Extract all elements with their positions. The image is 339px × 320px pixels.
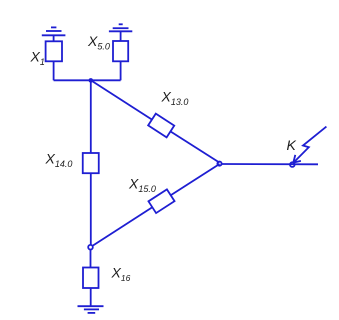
svg-text:X14.0: X14.0: [45, 151, 73, 170]
wire from X5.0 down to top bus: [120, 61, 122, 80]
system source symbol S2 (inverted ground above X5.0): [109, 24, 132, 31]
wire from X14.0 down to node B: [90, 173, 92, 245]
wire from node C to fault node K: [222, 163, 318, 165]
wire from X15.0 to node C: [171, 164, 220, 195]
node K (open circle, fault location): [290, 162, 295, 167]
svg-text:X16: X16: [111, 265, 131, 284]
wire from node A down to reactance X14.0: [90, 80, 92, 153]
svg-text:X15.0: X15.0: [128, 176, 156, 195]
reactance X15.0 (rotated): [148, 189, 174, 213]
wire from X16 down to ground: [90, 288, 92, 306]
reactance X5.0: [113, 41, 128, 61]
wire diagonal from node A to reactance X13.0: [91, 80, 152, 119]
node B (open circle at bottom of left branch): [88, 245, 93, 250]
wire from X13.0 to node C: [170, 131, 219, 162]
short-circuit lightning arrow at node K: [293, 127, 326, 163]
reactance X1: [46, 41, 62, 61]
svg-text:X1: X1: [30, 49, 45, 68]
node C (open circle, triangle right vertex): [217, 162, 221, 166]
node A (junction dot on top bus): [89, 78, 94, 83]
svg-text:K: K: [287, 137, 297, 153]
system source symbol S1 (inverted ground above X1): [42, 27, 66, 35]
reactance X13.0 (rotated): [148, 114, 174, 138]
wire diagonal from node B to reactance X15.0: [92, 207, 152, 246]
ground symbol: [78, 306, 104, 313]
wire from source symbol S2 to reactance X5.0: [120, 31, 122, 41]
wire from X1 down to top bus: [53, 61, 55, 80]
reactance X14.0: [83, 153, 99, 173]
svg-text:X5.0: X5.0: [87, 33, 110, 52]
svg-text:X13.0: X13.0: [161, 89, 189, 108]
reactance X16: [83, 268, 99, 289]
wire from source symbol S1 to reactance X1: [53, 35, 55, 41]
wire top bus (horizontal): [54, 79, 121, 81]
wire from node B down to reactance X16: [90, 249, 92, 267]
